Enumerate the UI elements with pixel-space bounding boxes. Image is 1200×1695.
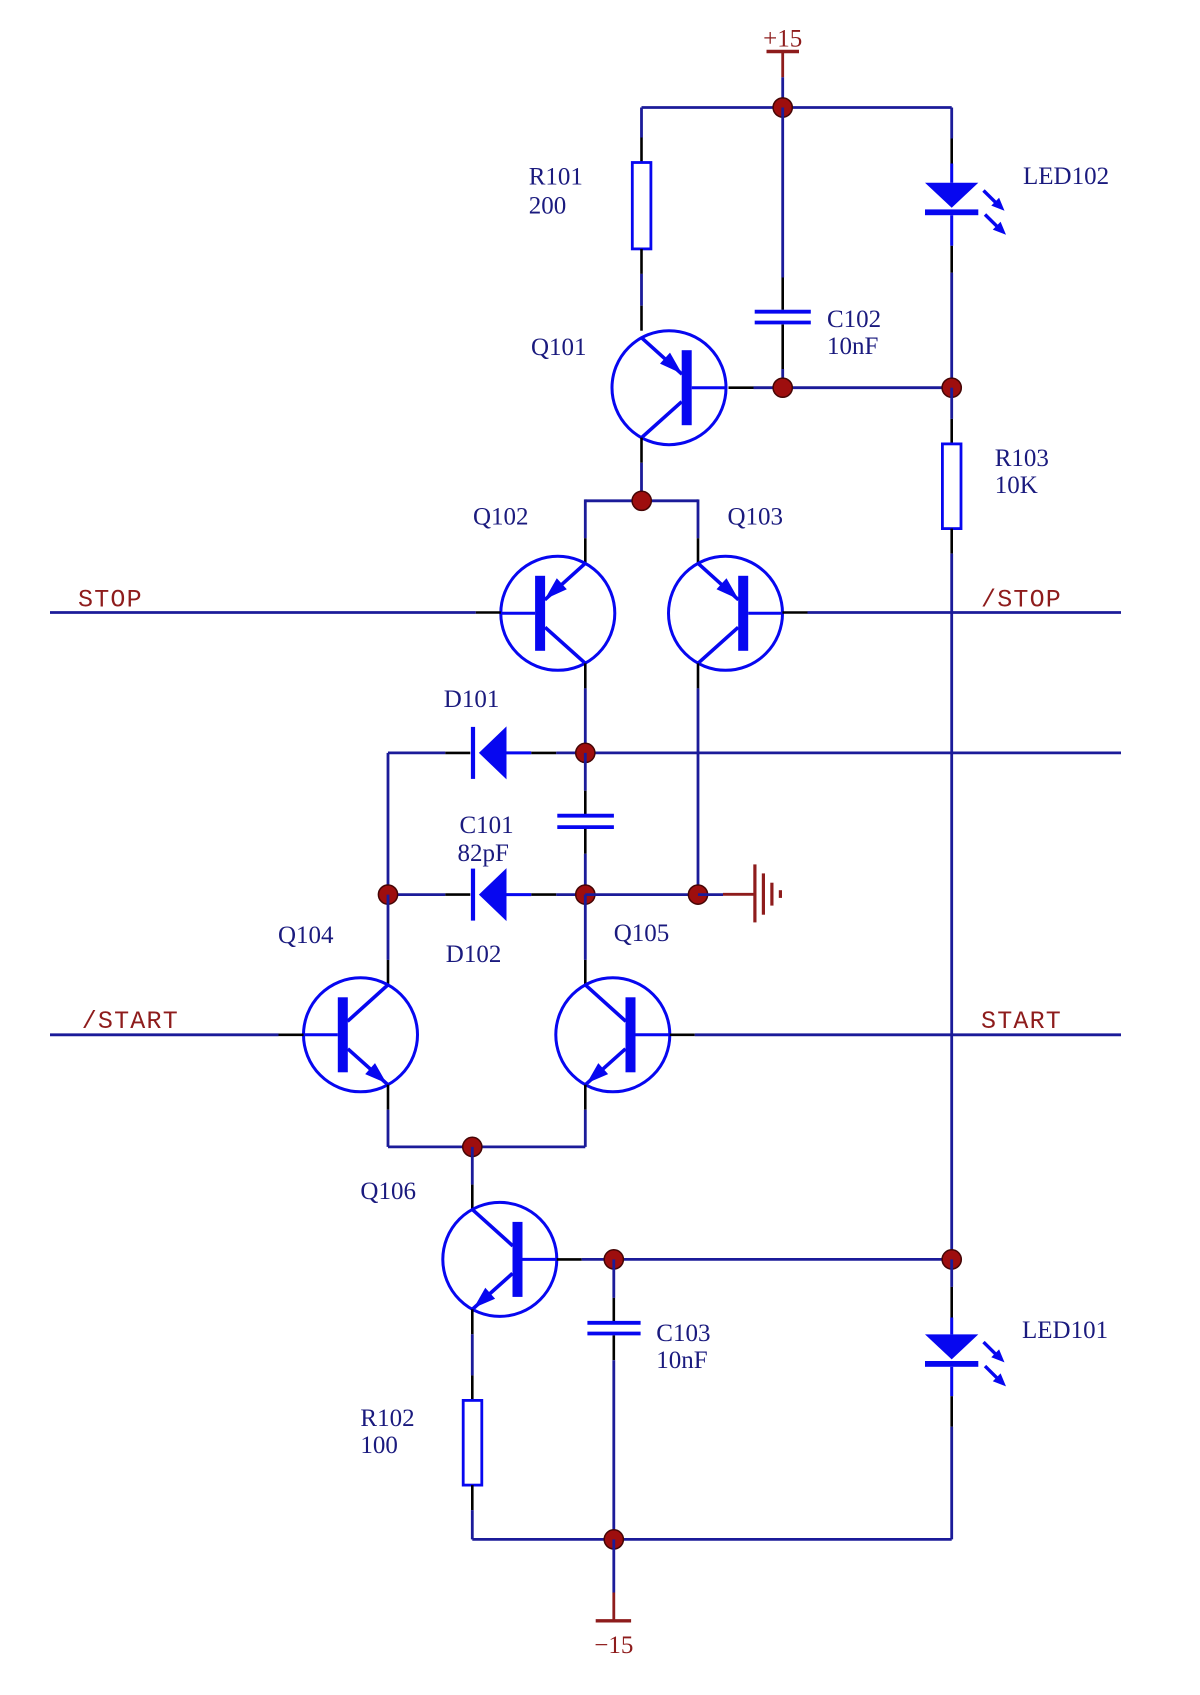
wire left vertical D101-D102 — [387, 753, 390, 895]
wire /STOP line — [783, 611, 1122, 614]
svg-text:Q104: Q104 — [278, 922, 334, 949]
wire D102 left lead — [388, 893, 470, 896]
wire Q103 emitter down — [697, 663, 700, 894]
svg-text:R102: R102 — [360, 1405, 414, 1432]
wire R103 bottom long vertical — [950, 529, 953, 1260]
wire /START line — [50, 1033, 304, 1036]
diode D101 — [471, 726, 531, 779]
transistor Q101 — [612, 331, 726, 445]
wire LED102 top pin — [950, 108, 953, 164]
ground — [723, 864, 780, 922]
svg-text:R103: R103 — [995, 445, 1049, 472]
wire Q101 base to C102 node — [729, 386, 783, 389]
wire LED101 top pin — [950, 1259, 953, 1317]
wire top rail — [642, 106, 952, 109]
wire base node to R103 node — [783, 386, 952, 389]
svg-text:100: 100 — [360, 1432, 398, 1459]
node ground junction — [688, 885, 707, 904]
wire Q102 emitter down — [584, 663, 587, 753]
diode D102 — [471, 868, 531, 921]
svg-text:10nF: 10nF — [656, 1347, 707, 1374]
wire D101 left lead — [388, 752, 470, 755]
svg-text:D102: D102 — [446, 941, 502, 968]
wire LED102 bottom pin — [950, 246, 953, 388]
node LED101 top junction — [942, 1250, 961, 1269]
svg-text:82pF: 82pF — [458, 840, 509, 867]
wire Q106 emitter down — [471, 1309, 474, 1400]
node D102 left junction — [378, 885, 397, 904]
label C102 10nF — [827, 306, 881, 360]
svg-text:/STOP: /STOP — [981, 586, 1062, 615]
wire Q105 collector vertical — [584, 895, 587, 985]
svg-text:START: START — [981, 1007, 1062, 1036]
power -15 — [594, 1593, 633, 1660]
wire R102 bottom — [471, 1485, 474, 1539]
node D101 junction — [576, 743, 595, 762]
wire -15 stub — [612, 1539, 615, 1592]
label R102 100 — [360, 1405, 414, 1459]
node emitter junction — [463, 1137, 482, 1156]
wire C101 top pin — [584, 753, 587, 814]
svg-text:Q103: Q103 — [728, 504, 784, 531]
transistor Q103 — [669, 556, 783, 670]
node C101 bottom junction — [576, 885, 595, 904]
wire bottom rail — [472, 1538, 951, 1541]
svg-text:STOP: STOP — [78, 586, 143, 615]
wire C101 junction to ground junction — [585, 893, 698, 896]
svg-text:D101: D101 — [444, 686, 500, 713]
wire C102 top pin — [781, 108, 784, 310]
label C103 10nF — [656, 1320, 710, 1374]
svg-text:C101: C101 — [460, 812, 514, 839]
wire C103 bottom pin — [612, 1335, 615, 1539]
label R101 200 — [529, 164, 583, 220]
svg-text:+15: +15 — [763, 26, 802, 53]
capacitor C103 — [587, 1323, 640, 1334]
svg-text:LED102: LED102 — [1023, 163, 1109, 190]
svg-text:10nF: 10nF — [827, 333, 878, 360]
svg-text:10K: 10K — [995, 472, 1038, 499]
svg-text:−15: −15 — [594, 1632, 633, 1659]
label R103 10K — [995, 445, 1049, 499]
capacitor C102 — [755, 312, 811, 323]
node Q106 base junction — [604, 1250, 623, 1269]
wire Q106 base to C103 node — [557, 1258, 614, 1261]
transistor Q106 — [443, 1202, 557, 1316]
svg-text:LED101: LED101 — [1022, 1317, 1108, 1344]
svg-text:Q102: Q102 — [473, 504, 529, 531]
svg-text:Q101: Q101 — [531, 334, 587, 361]
wire C101 bottom pin — [584, 829, 587, 895]
node bottom rail junction — [604, 1530, 623, 1549]
capacitor C101 — [557, 816, 614, 827]
LED LED102 — [925, 164, 1006, 246]
node top rail junction — [773, 98, 792, 117]
wire STOP line — [50, 611, 501, 614]
svg-text:/START: /START — [82, 1007, 179, 1036]
wire R101 top — [640, 108, 643, 163]
svg-text:R101: R101 — [529, 164, 583, 191]
wire +15 stub — [781, 77, 784, 107]
wire R103 top pin — [950, 388, 953, 444]
wire C102 bottom pin — [781, 325, 784, 388]
wire START line — [670, 1034, 1121, 1037]
svg-text:C102: C102 — [827, 306, 881, 333]
wire D101 right lead and long line — [531, 752, 1121, 755]
resistor R101 — [632, 163, 651, 249]
svg-text:200: 200 — [529, 193, 567, 220]
wire Q106 collector vertical — [471, 1147, 474, 1210]
LED LED101 — [925, 1318, 1006, 1397]
wire Q104 collector vertical — [387, 895, 390, 985]
transistor Q102 — [501, 556, 615, 670]
power +15 — [763, 26, 802, 78]
wire D102 right lead — [531, 893, 585, 896]
svg-text:Q106: Q106 — [360, 1178, 416, 1205]
wire LED101 bottom pin — [950, 1396, 953, 1539]
wire Q101 emitter bottom — [640, 438, 643, 501]
resistor R103 — [942, 444, 961, 529]
node C102 bottom junction — [773, 378, 792, 397]
svg-text:Q105: Q105 — [614, 920, 670, 947]
node R103 top junction — [942, 378, 961, 397]
wire R101 bottom to Q101 — [640, 249, 643, 331]
resistor R102 — [463, 1400, 482, 1485]
wire Q104 emitter down — [388, 1085, 472, 1147]
wire collector bus Q102-Q103 — [585, 499, 698, 563]
label C101 82pF — [458, 812, 514, 867]
transistor Q105 — [556, 978, 670, 1092]
wire ground link stub — [698, 893, 723, 896]
svg-text:C103: C103 — [656, 1320, 710, 1347]
transistor Q104 — [304, 978, 418, 1092]
wire Q105 emitter down — [472, 1085, 585, 1147]
wire C103 node to LED101 node — [614, 1258, 952, 1261]
wire C103 top pin — [612, 1259, 615, 1321]
node Q101 emitter junction — [632, 491, 651, 510]
